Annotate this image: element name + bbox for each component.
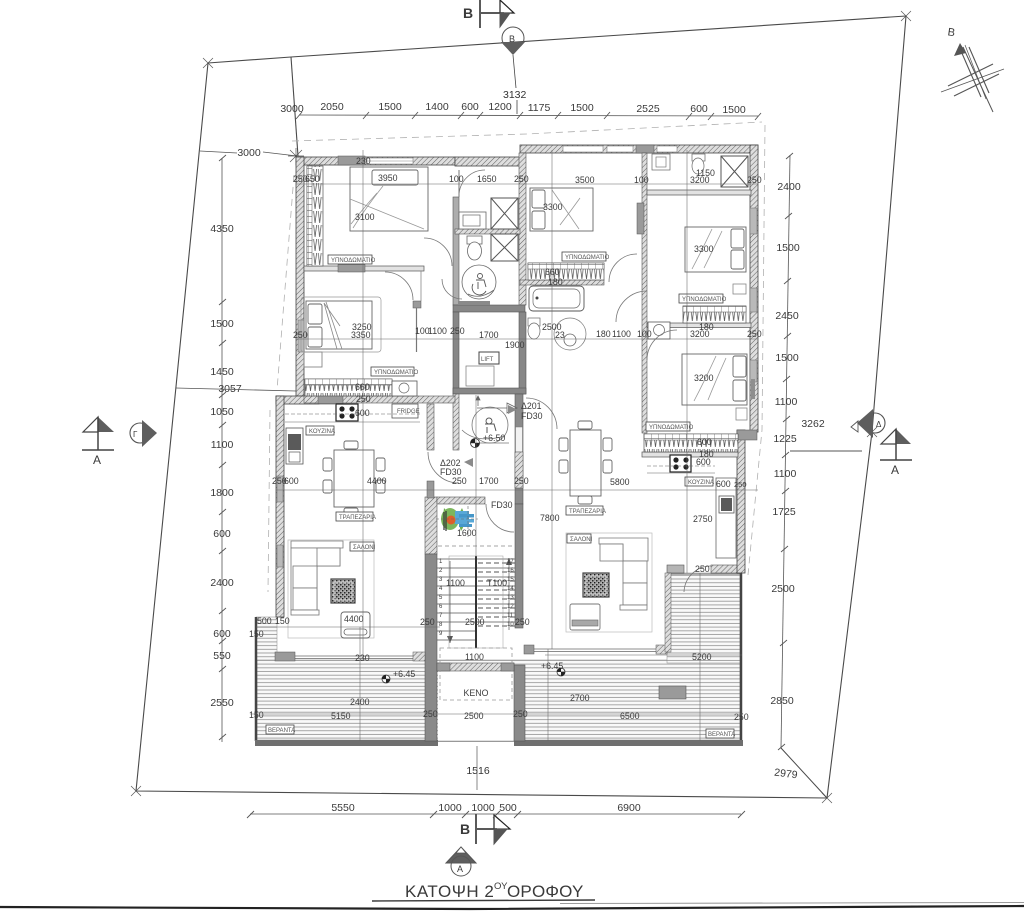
svg-text:2700: 2700: [570, 693, 590, 703]
washing machine box: [392, 381, 417, 396]
svg-text:3000: 3000: [280, 103, 304, 115]
svg-text:2500: 2500: [464, 711, 484, 721]
svg-text:1500: 1500: [570, 102, 594, 114]
svg-text:1000: 1000: [471, 802, 495, 814]
svg-text:4350: 4350: [210, 223, 234, 235]
svg-text:2450: 2450: [775, 310, 799, 322]
svg-text:650: 650: [305, 174, 320, 184]
svg-text:3100: 3100: [355, 212, 375, 222]
svg-text:ΒΕΡΑΝΤΑ: ΒΕΡΑΝΤΑ: [268, 728, 295, 734]
exterior wall right: [750, 145, 758, 432]
svg-text:A: A: [93, 453, 101, 467]
svg-text:2500: 2500: [771, 583, 795, 595]
svg-text:180: 180: [699, 322, 714, 332]
left section markers: [82, 417, 157, 467]
right dimension chain: [781, 155, 790, 748]
Δ202 arrow: [464, 458, 473, 467]
svg-text:ΚΟΥΖΙΝΑ: ΚΟΥΖΙΝΑ: [688, 480, 714, 486]
svg-text:ΣΑΛΟΝΙ: ΣΑΛΟΝΙ: [570, 537, 593, 543]
svg-text:1600: 1600: [457, 528, 477, 538]
rug right: [583, 573, 609, 597]
svg-text:1700: 1700: [479, 476, 499, 486]
svg-text:Γ: Γ: [133, 430, 138, 439]
wardrobe bedroom2: [305, 379, 392, 396]
scan line at bottom: [0, 906, 1024, 909]
planter right: [659, 686, 686, 699]
svg-text:3300: 3300: [694, 244, 714, 254]
glass fronts: [284, 649, 667, 659]
svg-text:3262: 3262: [801, 418, 825, 430]
svg-text:13: 13: [507, 595, 514, 601]
svg-text:6500: 6500: [620, 711, 640, 721]
marker A right: [881, 429, 896, 444]
wardrobe 4: [683, 306, 746, 323]
svg-text:1450: 1450: [210, 366, 234, 378]
svg-text:1500: 1500: [378, 101, 402, 113]
svg-text:ΒΕΡΑΝΤΑ: ΒΕΡΑΝΤΑ: [708, 732, 735, 738]
svg-text:1000: 1000: [438, 802, 462, 814]
lift: [479, 352, 499, 364]
svg-text:180: 180: [596, 329, 611, 339]
boundary leader 2979: [781, 748, 827, 798]
svg-text:ΣΑΛΟΝΙ: ΣΑΛΟΝΙ: [353, 545, 376, 551]
sofa right: [566, 533, 652, 632]
north arrow: [941, 26, 1004, 112]
svg-text:23: 23: [555, 330, 565, 340]
svg-text:ΚΕΝΟ: ΚΕΝΟ: [464, 688, 489, 698]
svg-text:250: 250: [356, 394, 371, 404]
svg-text:ΥΠΝΟΔΩΜΑΤΙΟ: ΥΠΝΟΔΩΜΑΤΙΟ: [374, 370, 419, 376]
svg-text:5800: 5800: [610, 477, 630, 487]
svg-text:2850: 2850: [770, 695, 794, 707]
svg-text:3200: 3200: [694, 373, 714, 383]
title ΚΑΤΟΨΗ 2ΟΥ ΟΡΟΦΟΥ: [372, 881, 595, 901]
marker A left: [83, 417, 98, 432]
bathtub: [529, 286, 584, 311]
svg-text:1650: 1650: [477, 174, 497, 184]
svg-text:1500: 1500: [776, 242, 800, 254]
svg-text:2525: 2525: [636, 103, 660, 115]
bottom dimension chain: [250, 813, 741, 815]
svg-text:230: 230: [355, 653, 370, 663]
svg-text:A: A: [891, 463, 899, 477]
wardrobe bedroom1: [307, 166, 323, 266]
svg-text:150: 150: [249, 710, 264, 720]
svg-text:16: 16: [507, 568, 514, 574]
svg-text:4400: 4400: [367, 476, 387, 486]
svg-text:2550: 2550: [210, 697, 234, 709]
svg-text:2400: 2400: [777, 181, 801, 193]
svg-text:ΥΠΝΟΔΩΜΑΤΙΟ: ΥΠΝΟΔΩΜΑΤΙΟ: [565, 255, 610, 261]
svg-text:250: 250: [293, 330, 308, 340]
svg-text:600: 600: [213, 628, 231, 640]
svg-text:1500: 1500: [722, 104, 746, 116]
svg-text:5550: 5550: [331, 802, 355, 814]
svg-text:3350: 3350: [351, 330, 371, 340]
node B circle on boundary: [501, 27, 527, 114]
svg-text:1050: 1050: [210, 406, 234, 418]
svg-text:12: 12: [507, 604, 514, 610]
svg-text:6900: 6900: [617, 802, 641, 814]
svg-text:2750: 2750: [693, 514, 713, 524]
svg-text:ΥΠΝΟΔΩΜΑΤΙΟ: ΥΠΝΟΔΩΜΑΤΙΟ: [331, 258, 376, 264]
interior dimension texts: [249, 156, 762, 722]
svg-text:500: 500: [499, 802, 517, 814]
small interior dim lines: [250, 150, 758, 741]
coffee table left: [341, 612, 370, 638]
exterior wall left: [296, 157, 304, 396]
svg-text:+6.50: +6.50: [483, 433, 505, 443]
wardrobe 5: [644, 434, 738, 452]
top small bath fixtures: [652, 154, 670, 170]
svg-text:1400: 1400: [425, 101, 449, 113]
svg-text:15: 15: [507, 577, 514, 583]
svg-text:100: 100: [637, 329, 652, 339]
svg-text:3950: 3950: [378, 173, 398, 183]
+6.45 markers: [382, 675, 390, 683]
property boundary: [136, 16, 906, 798]
svg-text:1516: 1516: [466, 765, 490, 777]
svg-text:150: 150: [249, 629, 264, 639]
svg-text:ΤΡΑΠΕΖΑΡΙΑ: ΤΡΑΠΕΖΑΡΙΑ: [339, 515, 376, 521]
svg-text:250: 250: [695, 564, 710, 574]
svg-text:1100: 1100: [428, 326, 447, 336]
stairs: [437, 559, 515, 640]
svg-text:600: 600: [355, 408, 370, 418]
svg-text:5150: 5150: [331, 711, 351, 721]
bottom exterior wall: [255, 740, 438, 746]
sink core: [459, 212, 486, 229]
svg-text:550: 550: [213, 650, 231, 662]
svg-text:1700: 1700: [479, 330, 499, 340]
svg-text:5200: 5200: [692, 652, 712, 662]
svg-text:500: 500: [257, 616, 272, 626]
svg-text:1100: 1100: [211, 439, 234, 451]
svg-text:2400: 2400: [210, 577, 234, 589]
bed 1: [350, 167, 428, 231]
svg-text:660: 660: [545, 267, 560, 277]
svg-text:1725: 1725: [772, 506, 796, 518]
svg-text:A: A: [457, 864, 463, 874]
left dimension chain: [221, 158, 223, 742]
svg-text:LIFT: LIFT: [481, 357, 494, 363]
svg-text:250: 250: [452, 476, 467, 486]
door arcs: [385, 170, 711, 592]
bed 3: [530, 188, 593, 231]
bottom section marker B: [460, 814, 510, 844]
svg-text:600: 600: [284, 476, 299, 486]
svg-text:250: 250: [747, 329, 762, 339]
svg-text:3500: 3500: [575, 175, 595, 185]
wardrobe 3: [528, 263, 604, 280]
svg-text:4400: 4400: [344, 614, 364, 624]
room labels: [266, 252, 735, 738]
svg-text:100: 100: [634, 175, 649, 185]
armchair right: [570, 604, 600, 630]
ramp wheelchair circle: [472, 407, 508, 443]
X shaft 2: [491, 234, 518, 261]
svg-text:ΤΡΑΠΕΖΑΡΙΑ: ΤΡΑΠΕΖΑΡΙΑ: [569, 509, 606, 515]
svg-text:B: B: [460, 821, 470, 837]
svg-text:250: 250: [514, 174, 529, 184]
bed 5 (3200): [682, 354, 747, 405]
svg-text:3000: 3000: [237, 147, 261, 159]
shower core: [462, 265, 496, 299]
dining table right: [559, 421, 612, 504]
right section markers: [790, 409, 912, 477]
sink left: [286, 428, 303, 464]
svg-text:660: 660: [355, 382, 370, 392]
svg-text:1100: 1100: [612, 329, 631, 339]
veranda edges: [255, 617, 258, 741]
svg-text:7800: 7800: [540, 513, 560, 523]
verandas (deck hatch): [256, 573, 740, 740]
toilet + bidet mid bath: [528, 318, 540, 326]
dining table left: [323, 441, 385, 516]
svg-text:3300: 3300: [543, 202, 563, 212]
interior main walls: [453, 197, 459, 305]
sofa left: [288, 540, 374, 638]
entrance landing colored wheelchair: [436, 506, 478, 537]
svg-text:Δ: Δ: [876, 420, 882, 429]
svg-text:250: 250: [420, 617, 435, 627]
svg-text:Δ201: Δ201: [521, 401, 542, 411]
svg-text:1800: 1800: [210, 487, 234, 499]
svg-text:11: 11: [507, 613, 514, 619]
svg-text:250: 250: [450, 326, 465, 336]
bed 2: [301, 297, 381, 367]
svg-text:14: 14: [507, 586, 514, 592]
svg-text:+6.45: +6.45: [393, 669, 415, 679]
svg-text:250: 250: [734, 480, 747, 489]
rug left: [331, 579, 355, 603]
svg-text:ΟΥ: ΟΥ: [494, 881, 508, 892]
svg-text:150: 150: [275, 616, 290, 626]
bed 4 (3300): [685, 227, 746, 272]
top section marker B: [463, 0, 514, 28]
svg-text:17: 17: [507, 559, 514, 565]
kitchen left: stove: [336, 404, 358, 421]
svg-text:2050: 2050: [320, 101, 344, 113]
svg-text:600: 600: [213, 528, 231, 540]
svg-text:1175: 1175: [528, 102, 551, 114]
svg-text:FD30: FD30: [491, 500, 513, 510]
svg-text:B: B: [463, 5, 473, 21]
svg-text:1100: 1100: [775, 396, 798, 408]
svg-text:1225: 1225: [773, 433, 797, 445]
svg-text:600: 600: [716, 479, 731, 489]
svg-text:600: 600: [696, 457, 711, 467]
svg-text:1200: 1200: [488, 101, 512, 113]
svg-text:230: 230: [356, 156, 371, 166]
svg-text:250: 250: [515, 617, 530, 627]
svg-text:1100: 1100: [774, 468, 797, 480]
bedroom2 door jamb & partition: [413, 301, 421, 308]
svg-text:250: 250: [747, 175, 762, 185]
bottom marker A pyramid: [446, 847, 476, 876]
counter + sink right: [716, 478, 736, 558]
svg-text:ΟΡΟΦΟΥ: ΟΡΟΦΟΥ: [507, 882, 584, 901]
svg-text:FD30: FD30: [440, 467, 462, 477]
marker Γ: [130, 423, 150, 443]
WC core: [467, 236, 482, 244]
boundary corner marks: [131, 11, 911, 803]
svg-text:2500: 2500: [465, 617, 485, 627]
fridge: [392, 404, 418, 418]
svg-text:1100: 1100: [446, 578, 465, 588]
roof overhang dashed: [268, 122, 765, 592]
washing machine right: [648, 322, 670, 339]
exterior walls top: [296, 157, 455, 165]
svg-text:10: 10: [507, 622, 514, 628]
kitchen right: stove: [670, 455, 691, 472]
svg-text:ΥΠΝΟΔΩΜΑΤΙΟ: ΥΠΝΟΔΩΜΑΤΙΟ: [682, 297, 727, 303]
X shaft 1: [491, 198, 518, 229]
svg-text:600: 600: [690, 103, 708, 115]
svg-text:1100: 1100: [465, 652, 484, 662]
svg-text:180: 180: [548, 277, 563, 287]
svg-text:FD30: FD30: [521, 411, 543, 421]
svg-text:250: 250: [734, 712, 749, 722]
svg-text:1900: 1900: [505, 340, 525, 350]
svg-text:ΚΑΤΟΨΗ 2: ΚΑΤΟΨΗ 2: [405, 882, 494, 901]
svg-text:100: 100: [449, 174, 464, 184]
svg-text:1500: 1500: [775, 352, 799, 364]
svg-text:1150: 1150: [696, 168, 715, 178]
svg-text:600: 600: [697, 437, 712, 447]
svg-text:1500: 1500: [210, 318, 234, 330]
kitchen counter dashed: [285, 413, 420, 415]
top dimension chain: [299, 115, 758, 116]
svg-text:250: 250: [514, 476, 529, 486]
svg-text:3132: 3132: [503, 89, 527, 101]
svg-text:600: 600: [461, 101, 479, 113]
svg-text:ΚΟΥΖΙΝΑ: ΚΟΥΖΙΝΑ: [309, 429, 335, 435]
svg-text:Τ100: Τ100: [487, 578, 507, 588]
